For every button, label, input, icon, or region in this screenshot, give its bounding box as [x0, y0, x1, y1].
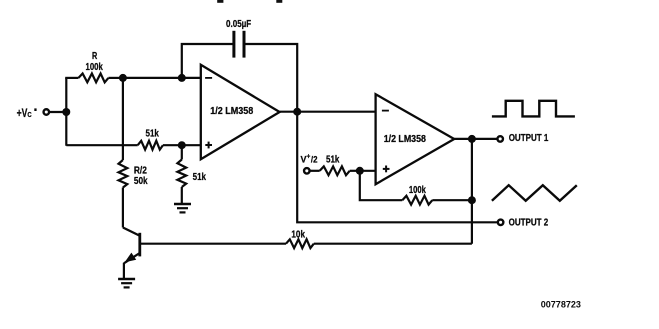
node C: non-inverting input junction [178, 141, 186, 149]
ground under transistor [118, 278, 135, 281]
label +VC* [17, 108, 37, 121]
resistor R 100k [79, 74, 109, 83]
triangle wave symbol [492, 185, 577, 201]
wire 51k to ground [181, 187, 183, 204]
resistor 100k feedback [402, 196, 432, 205]
resistor 51k vertical [177, 160, 186, 188]
wire from +VC terminal to node [50, 111, 67, 113]
svg-text:R: R [92, 50, 98, 61]
transistor Q1 collector diagonal [123, 228, 139, 236]
svg-text:R/2: R/2 [134, 165, 147, 176]
node A: R / R-half junction [119, 74, 127, 82]
ground under 51k [174, 203, 191, 206]
svg-text:00778723: 00778723 [541, 299, 581, 309]
svg-text:1/2 LM358: 1/2 LM358 [384, 134, 426, 144]
svg-text:0.05µF: 0.05µF [226, 18, 252, 29]
transistor Q1 emitter diagonal [124, 253, 140, 263]
wire resistor R to node A [108, 77, 123, 79]
terminal OUTPUT 1 circle [497, 136, 503, 142]
wire 51k to node E [350, 170, 360, 172]
wire capacitor right to U1 output node [245, 44, 297, 112]
svg-text:50k: 50k [134, 175, 148, 186]
wire node G to OUTPUT 1 terminal [472, 138, 497, 140]
svg-text:51k: 51k [193, 171, 206, 182]
capacitor C1 0.05uF plates [232, 31, 245, 58]
node: +VC junction [62, 108, 70, 116]
wire V+/2 terminal to 51k [310, 170, 320, 172]
U1 plus sign [205, 142, 212, 149]
wire lower left run [66, 144, 137, 146]
resistor 51k horizontal left [138, 141, 163, 150]
wire node E to U2 non-inverting input [360, 170, 376, 172]
wire node C down [181, 145, 183, 159]
U1 minus sign [205, 77, 212, 79]
terminal OUTPUT 2 circle [498, 220, 504, 226]
wire node B to U1 inverting input [182, 77, 201, 79]
terminal +VC input circle [44, 109, 50, 115]
svg-text:C: C [27, 112, 32, 120]
terminal V+/2 circle [304, 168, 310, 174]
wire emitter down [123, 263, 125, 279]
wire node A to node B [123, 77, 182, 79]
transistor Q1 base bar [138, 233, 141, 257]
wire vertical left branch (node up/down) [65, 78, 67, 146]
wire 10k run right section [314, 243, 472, 245]
wire 51k to node C [163, 144, 182, 146]
wire 100k to node F [432, 199, 472, 201]
wire node E down and right to 100k [360, 171, 403, 200]
svg-text:51k: 51k [326, 154, 339, 165]
svg-text:51k: 51k [146, 128, 159, 139]
svg-text:100k: 100k [409, 184, 426, 195]
resistor 51k at V+/2 [320, 166, 350, 175]
U2 plus sign [383, 166, 390, 173]
resistor R/2 50k [119, 160, 128, 188]
node D: U1 output junction [293, 108, 301, 116]
wire R/2 down to transistor collector [122, 188, 124, 228]
svg-text:OUTPUT 1: OUTPUT 1 [509, 132, 549, 143]
resistor 10k [286, 239, 314, 248]
wire 10k to transistor base [140, 243, 286, 245]
node B: feedback junction on inverting input [178, 74, 186, 82]
wire node B up to feedback [182, 44, 233, 78]
op-amp U1 triangle [201, 65, 280, 159]
wire node A down to R-half [122, 78, 124, 160]
node F: feedback junction on output column [468, 196, 476, 204]
wire node D down to output2 line [297, 112, 497, 223]
U2 minus sign [382, 110, 389, 112]
svg-text:+V: +V [17, 108, 28, 121]
wire node D to U2 inverting input [297, 111, 375, 113]
op-amp U2 triangle [376, 94, 455, 184]
svg-text:1/2 LM358: 1/2 LM358 [210, 106, 253, 116]
wire node G down to 10k run [471, 139, 473, 244]
wire U1 output to node D [280, 111, 298, 113]
wire U2 output to node G [454, 138, 472, 140]
transistor Q1 emitter arrowhead [125, 253, 137, 263]
wire to resistor R left [65, 77, 78, 79]
svg-text:10k: 10k [291, 229, 305, 240]
node E: non-inverting junction U2 [356, 167, 364, 175]
cropped title text fragment right [276, 0, 282, 3]
square wave symbol [492, 101, 575, 117]
svg-text:100k: 100k [86, 61, 103, 72]
label V+/2 [301, 153, 318, 165]
cropped title text fragment left [217, 0, 223, 3]
node G: U2 output junction [468, 135, 476, 143]
svg-text:OUTPUT 2: OUTPUT 2 [509, 217, 549, 228]
svg-text:/2: /2 [311, 154, 318, 165]
wire node C to U1 non-inverting input [182, 144, 201, 146]
svg-text:+: + [307, 153, 311, 160]
